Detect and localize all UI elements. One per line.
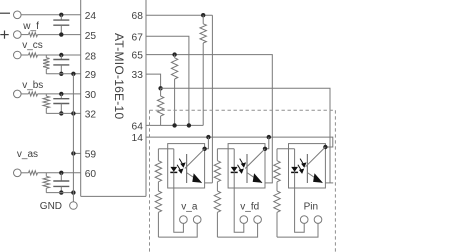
svg-text:w_f: w_f bbox=[22, 21, 39, 32]
DAQ connector U1 bottom edge bbox=[81, 195, 146, 197]
dashed enclosure right bbox=[334, 110, 336, 252]
svg-text:v_a: v_a bbox=[181, 202, 198, 213]
pin 59 label bbox=[85, 150, 97, 161]
label w_f bbox=[22, 21, 39, 32]
label GND bbox=[40, 201, 62, 212]
junction row25/C1 bbox=[59, 32, 63, 36]
LED D3 cathode wire bbox=[295, 172, 305, 232]
resistor Ra U3 input bbox=[274, 149, 280, 182]
wire pin14 (+5V) bbox=[146, 137, 333, 147]
resistor R7 (v_as shunt) bbox=[43, 173, 49, 193]
svg-text:v_fd: v_fd bbox=[240, 202, 259, 213]
junction gndline/C4 bbox=[59, 190, 63, 194]
wire U3 emitter stub bbox=[325, 182, 333, 184]
svg-text:28: 28 bbox=[85, 51, 97, 62]
label U1 AT-MIO-16E-10 bbox=[112, 33, 126, 119]
label v_cs bbox=[22, 40, 43, 51]
junction 64/67 bbox=[187, 123, 191, 127]
wire anode feed U1 bbox=[158, 148, 173, 150]
phototransistor Q2 collector bbox=[245, 149, 265, 169]
resistor R2 (v_cs series) bbox=[29, 53, 38, 57]
wire row60 b bbox=[38, 172, 81, 174]
label v_a bbox=[181, 202, 198, 213]
label Pin bbox=[304, 202, 318, 213]
LED D1 cathode wire bbox=[174, 172, 184, 232]
pin 25 label bbox=[85, 31, 97, 42]
svg-text:v_as: v_as bbox=[17, 149, 38, 160]
junction U1 collector bbox=[202, 147, 206, 151]
svg-text:14: 14 bbox=[132, 133, 144, 144]
wire U1 outer return bbox=[158, 223, 197, 237]
svg-text:64: 64 bbox=[132, 121, 144, 132]
wire ground rail bbox=[72, 74, 74, 202]
wire row30 a bbox=[21, 93, 29, 95]
terminal v_fd left bbox=[240, 216, 248, 224]
phototransistor Q3 base bar bbox=[306, 154, 308, 183]
wire gnd line bbox=[46, 192, 73, 194]
wire row30 b bbox=[38, 93, 81, 95]
phototransistor Q2 base bar bbox=[246, 154, 248, 183]
wire ch0 vertical bbox=[211, 15, 213, 183]
phototransistor Q2 emitter arrow bbox=[253, 173, 263, 183]
junction row29/rail bbox=[71, 72, 75, 76]
resistor Ra U2 input bbox=[214, 149, 220, 182]
phototransistor Q2 emitter bbox=[247, 173, 262, 183]
light arrow 1 U3 bbox=[300, 159, 306, 168]
LED D3 cathode bar bbox=[291, 171, 298, 173]
pin 14 label bbox=[132, 133, 144, 144]
pin 65 label bbox=[132, 51, 144, 62]
pin 64 label bbox=[132, 121, 144, 132]
wire +5V to U2 collector bbox=[265, 137, 269, 149]
capacitor C4 bbox=[53, 173, 69, 193]
wire ch1 horizontal bbox=[161, 88, 330, 183]
pin 28 label bbox=[85, 51, 97, 62]
pin 33 label bbox=[132, 70, 144, 81]
junction U3 collector bbox=[323, 145, 327, 149]
wire row60 a bbox=[21, 172, 29, 174]
svg-text:GND: GND bbox=[40, 201, 62, 212]
wire row25 a bbox=[21, 34, 29, 36]
wire +5V to U1 collector bbox=[205, 137, 209, 149]
pin 60 label bbox=[85, 169, 97, 180]
junction row24/C1 bbox=[59, 13, 63, 17]
terminal GND bbox=[70, 202, 78, 210]
wire U1 emitter stub bbox=[205, 182, 213, 184]
minus polarity mark bbox=[0, 12, 10, 14]
dashed enclosure left bbox=[149, 110, 151, 252]
phototransistor Q1 collector bbox=[185, 149, 205, 169]
terminal T1 (w_f -) bbox=[13, 11, 21, 19]
resistor Ra U1 input bbox=[155, 149, 161, 182]
wire pin33 bbox=[146, 74, 161, 88]
light arrow 2 U2 bbox=[238, 165, 244, 174]
wire pin68 bbox=[146, 14, 212, 16]
resistor Rb U1 input bbox=[155, 182, 161, 237]
wire U3 outer return bbox=[277, 223, 318, 237]
resistor R3 (v_cs shunt) bbox=[43, 55, 49, 74]
terminal v_a left bbox=[180, 216, 188, 224]
svg-text:25: 25 bbox=[85, 31, 97, 42]
junction 64/R9 bbox=[172, 123, 176, 127]
light arrow 1 U2 bbox=[240, 159, 246, 168]
svg-text:60: 60 bbox=[85, 169, 97, 180]
terminal Pin left bbox=[300, 216, 308, 224]
junction row59/rail bbox=[71, 151, 75, 155]
wire row59 stub bbox=[73, 152, 80, 154]
svg-text:29: 29 bbox=[85, 70, 97, 81]
svg-text:59: 59 bbox=[85, 150, 97, 161]
resistor R4 (v_bs series) bbox=[29, 92, 38, 96]
phototransistor Q3 emitter arrow bbox=[313, 173, 323, 183]
wire row32 bbox=[46, 112, 80, 114]
label v_as bbox=[17, 149, 38, 160]
junction row60/C4 bbox=[59, 171, 63, 175]
wire anode feed U3 bbox=[277, 148, 295, 150]
LED D2 anode bbox=[233, 149, 235, 167]
label v_bs bbox=[22, 80, 43, 91]
resistor R5 (v_bs shunt) bbox=[43, 94, 49, 114]
optocoupler U3 body box bbox=[289, 144, 326, 188]
terminal v_a right bbox=[193, 216, 201, 224]
svg-text:Pin: Pin bbox=[304, 202, 318, 213]
junction row30/C3 bbox=[59, 92, 63, 96]
capacitor C3 bbox=[53, 94, 69, 114]
wire row24 bbox=[21, 14, 81, 16]
svg-text:68: 68 bbox=[132, 11, 144, 22]
resistor R10 (ch1 load) bbox=[157, 88, 163, 125]
svg-text:32: 32 bbox=[85, 110, 97, 121]
terminal T2 (w_f +) bbox=[13, 31, 21, 39]
svg-text:65: 65 bbox=[132, 51, 144, 62]
capacitor C1 bbox=[53, 15, 69, 35]
terminal Pin right bbox=[314, 216, 322, 224]
phototransistor Q3 emitter bbox=[307, 173, 322, 183]
junction gndline/rail bbox=[71, 190, 75, 194]
light arrow 1 U1 bbox=[179, 159, 185, 168]
resistor R9 (ch2 load) bbox=[171, 55, 177, 126]
junction U2 collector bbox=[263, 147, 267, 151]
DAQ connector U1 right edge bbox=[145, 0, 147, 196]
terminal v_fd right bbox=[254, 216, 262, 224]
wire row29 bbox=[46, 73, 80, 75]
junction pin65/R9 bbox=[172, 52, 176, 56]
LED D2 triangle bbox=[231, 167, 238, 172]
plus polarity mark bbox=[0, 31, 8, 39]
junction pin33 node bbox=[158, 86, 162, 90]
LED D1 anode bbox=[173, 149, 175, 167]
LED D1 cathode bar bbox=[170, 171, 177, 173]
pin 68 label bbox=[132, 11, 144, 22]
junction row28/C2 bbox=[59, 53, 63, 57]
wire row28 b bbox=[38, 54, 81, 56]
LED D1 triangle bbox=[170, 167, 177, 172]
junction row32/C3 bbox=[59, 111, 63, 115]
wire U2 emitter stub bbox=[265, 182, 273, 184]
junction row32/rail bbox=[71, 111, 75, 115]
optocoupler U1 body box bbox=[168, 144, 205, 188]
junction row29/C2 bbox=[59, 72, 63, 76]
resistor Rb U3 input bbox=[274, 182, 280, 237]
phototransistor Q3 collector bbox=[306, 147, 326, 167]
LED D3 anode bbox=[294, 149, 296, 167]
LED D2 cathode wire bbox=[234, 172, 244, 232]
terminal T4 (v_bs) bbox=[13, 90, 21, 98]
wire pin64 bbox=[146, 124, 203, 126]
resistor R8 (ch0 load) bbox=[200, 15, 206, 125]
svg-text:33: 33 bbox=[132, 70, 144, 81]
resistor R1 (w_f series) bbox=[29, 33, 38, 37]
phototransistor Q1 base bar bbox=[186, 154, 188, 183]
pin 30 label bbox=[85, 90, 97, 101]
resistor Rb U2 input bbox=[214, 182, 220, 237]
svg-text:30: 30 bbox=[85, 90, 97, 101]
pin 32 label bbox=[85, 110, 97, 121]
junction +5V feed U2 bbox=[267, 135, 271, 139]
wire anode feed U2 bbox=[217, 148, 234, 150]
phototransistor Q1 emitter bbox=[187, 173, 202, 183]
terminal T3 (v_cs) bbox=[13, 51, 21, 59]
DAQ connector U1 AT-MIO-16E-10 left edge bbox=[80, 0, 82, 196]
wire pin67 bbox=[146, 36, 189, 125]
wire U2 outer return bbox=[217, 223, 257, 237]
wire row25 b bbox=[38, 34, 81, 36]
label v_fd bbox=[240, 202, 259, 213]
wire row28 a bbox=[21, 54, 29, 56]
phototransistor Q1 emitter arrow bbox=[192, 173, 202, 183]
wire pin65 bbox=[146, 55, 272, 183]
pin 67 label bbox=[132, 32, 144, 43]
light arrow 2 U3 bbox=[298, 165, 304, 174]
capacitor C2 bbox=[53, 55, 69, 74]
svg-text:v_cs: v_cs bbox=[22, 40, 43, 51]
svg-text:24: 24 bbox=[85, 11, 97, 22]
svg-text:AT-MIO-16E-10: AT-MIO-16E-10 bbox=[112, 33, 126, 119]
pin 24 label bbox=[85, 11, 97, 22]
dashed enclosure top bbox=[150, 109, 336, 111]
svg-text:v_bs: v_bs bbox=[22, 80, 43, 91]
light arrow 2 U1 bbox=[177, 165, 183, 174]
LED D3 triangle bbox=[291, 167, 298, 172]
LED D2 cathode bar bbox=[231, 171, 238, 173]
junction +5V feed U1 bbox=[206, 135, 210, 139]
terminal T5 (v_as) bbox=[13, 169, 21, 177]
svg-text:67: 67 bbox=[132, 32, 144, 43]
optocoupler U2 body box bbox=[228, 144, 265, 188]
pin 29 label bbox=[85, 70, 97, 81]
junction pin68/R8 bbox=[201, 13, 205, 17]
resistor R6 (v_as series) bbox=[29, 171, 38, 175]
